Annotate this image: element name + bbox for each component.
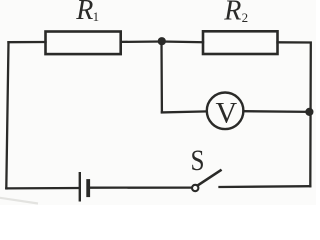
svg-text:1: 1 xyxy=(93,9,100,24)
svg-text:V: V xyxy=(216,96,238,129)
svg-text:2: 2 xyxy=(242,10,249,25)
svg-text:R: R xyxy=(223,0,241,27)
svg-text:R: R xyxy=(75,0,93,26)
svg-text:S: S xyxy=(191,143,205,177)
